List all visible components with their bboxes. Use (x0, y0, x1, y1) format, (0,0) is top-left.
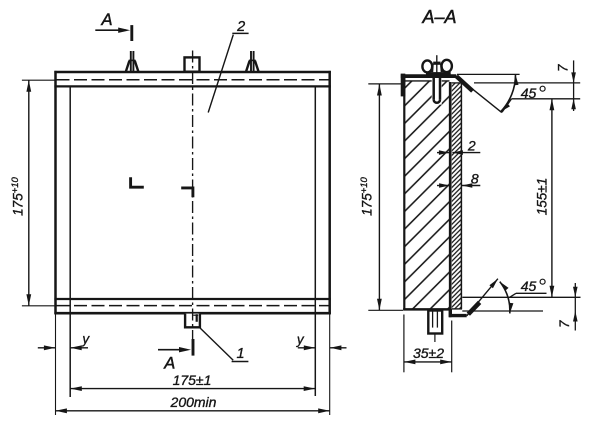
svg-text:35±2: 35±2 (413, 345, 444, 361)
svg-text:1: 1 (236, 346, 244, 362)
svg-text:200min: 200min (170, 394, 217, 410)
svg-text:7: 7 (556, 64, 571, 72)
svg-text:A–A: A–A (421, 7, 456, 27)
svg-text:y: y (296, 332, 305, 347)
svg-text:7: 7 (557, 320, 572, 328)
svg-text:8: 8 (471, 171, 479, 187)
svg-text:155±1: 155±1 (535, 178, 550, 215)
svg-text:175±1: 175±1 (173, 372, 212, 388)
svg-text:45: 45 (521, 278, 537, 294)
svg-text:2: 2 (467, 138, 476, 154)
svg-text:y: y (81, 332, 90, 347)
svg-text:A: A (163, 354, 175, 372)
svg-text:A: A (100, 11, 112, 29)
svg-text:45: 45 (521, 85, 537, 101)
